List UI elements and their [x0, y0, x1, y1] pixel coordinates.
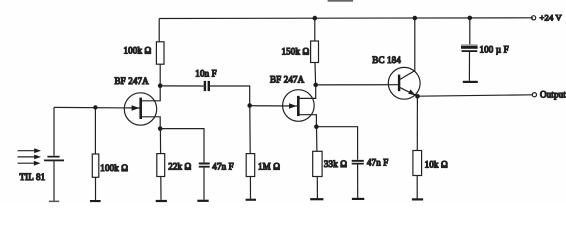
wire: drain T2 to base BC184 [316, 84, 398, 86]
wire: source T1 down to R 22k [159, 129, 161, 154]
ground bar [310, 198, 323, 200]
gate wire from TIL81 node into T1 [54, 106, 140, 109]
light arrow 3 [18, 162, 35, 164]
ground bar [90, 200, 101, 202]
svg-text:+24 V: +24 V [540, 13, 563, 23]
ground bar [463, 81, 478, 83]
node rail / R150k [313, 16, 318, 21]
capacitor 10n F [204, 81, 206, 91]
wire: R1M to ground [249, 177, 251, 199]
wire: gate node T2 down to R 1M [249, 106, 251, 154]
node source T1 [158, 126, 163, 131]
phototransistor TIL 81 [53, 107, 55, 155]
drain lead T2 [299, 85, 316, 98]
emitter lead with arrow [400, 88, 417, 97]
drain lead T1 [142, 86, 161, 101]
svg-text:100k Ω: 100k Ω [124, 46, 152, 56]
wire: +24V supply rail [159, 17, 533, 20]
wire: rail to R 150k [314, 18, 316, 41]
resistor 10k [413, 151, 422, 176]
wire: rail to C 100u [469, 18, 471, 44]
collector lead [400, 18, 415, 79]
wire: drain node to C 10n [160, 85, 203, 87]
wire: emitter down to R 10k [416, 96, 418, 150]
resistor 100k (bottom left) [92, 154, 99, 177]
wire: C10n to gate node of T2 [210, 86, 250, 105]
svg-text:BC 184: BC 184 [372, 55, 401, 65]
base bar [398, 75, 400, 92]
wire: rail drop to R 100k top [158, 19, 160, 42]
ground bar [197, 200, 208, 202]
wire: R to ground [95, 177, 97, 200]
svg-text:100 µ F: 100 µ F [480, 44, 509, 54]
wire: R33k to ground [316, 177, 318, 199]
resistor 22k [157, 154, 165, 177]
node rail / C100u [468, 16, 473, 21]
node drain T2 [313, 83, 318, 88]
terminal +24 V [532, 16, 536, 20]
wire: source T2 down to R 33k [316, 127, 318, 152]
terminal Output [532, 93, 536, 97]
svg-text:BF 247A: BF 247A [115, 76, 150, 86]
node rail / collector [413, 16, 418, 21]
resistor 33k [313, 151, 322, 176]
svg-text:Output: Output [540, 90, 566, 100]
svg-text:10n F: 10n F [195, 68, 217, 78]
node gate T1 / R100k bias [93, 105, 97, 109]
ground bar [246, 199, 256, 201]
gate wire into T2 [250, 105, 297, 107]
wire: C100u to ground [468, 52, 470, 81]
wire: emitter to Output [418, 95, 533, 96]
resistor 100k (top left) [156, 42, 164, 64]
capacitor 47n F (left) [199, 163, 210, 165]
ground bar [412, 198, 423, 200]
wire: C to ground [357, 165, 359, 198]
wire: R22k to ground [160, 177, 162, 200]
svg-text:47n F: 47n F [212, 161, 234, 171]
svg-text:47n F: 47n F [367, 158, 389, 168]
svg-text:33k Ω: 33k Ω [324, 159, 347, 169]
wire: source T1 to C 47n [160, 129, 204, 163]
ground bar [156, 200, 167, 202]
light arrow 2 [18, 156, 35, 158]
capacitor 47n F (right) [352, 160, 364, 162]
svg-text:1M Ω: 1M Ω [258, 161, 280, 171]
resistor 150k [311, 41, 319, 63]
svg-text:TIL 81: TIL 81 [20, 172, 46, 182]
wire: R150k to drain node T2 [314, 63, 317, 85]
svg-text:150k Ω: 150k Ω [282, 46, 310, 56]
wire: source T2 to C 47n (right) [317, 127, 358, 160]
svg-text:BF 247A: BF 247A [270, 75, 305, 85]
wire: node down to R 100k (bottom) [94, 107, 96, 154]
channel bar T1 [139, 98, 142, 119]
node drain J1 [158, 83, 163, 88]
wire: R100k bottom to drain node [159, 64, 161, 85]
source lead T1 [142, 117, 161, 129]
svg-text:100k Ω: 100k Ω [100, 163, 128, 173]
node gate T2 [247, 103, 252, 108]
source lead T2 [299, 115, 316, 127]
node source T2 [314, 124, 319, 129]
ground bar [352, 198, 364, 200]
capacitor 100 uF (electrolytic) [461, 44, 478, 46]
light arrow 1 [18, 150, 35, 152]
wire: R10k to ground [416, 176, 418, 199]
top page-edge mark [328, 0, 354, 2]
wire: C to ground [203, 168, 205, 200]
node emitter [415, 94, 420, 99]
resistor 1M [246, 154, 255, 177]
svg-text:10k Ω: 10k Ω [425, 159, 448, 169]
svg-text:22k Ω: 22k Ω [168, 161, 191, 171]
channel bar T2 [297, 96, 300, 116]
